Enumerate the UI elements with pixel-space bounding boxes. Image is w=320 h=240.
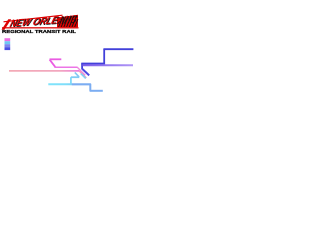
blue line middle vertical xyxy=(103,49,105,65)
legend swatch cyan xyxy=(5,41,11,44)
title logo red roofline xyxy=(4,15,63,22)
blue line lower horizontal xyxy=(81,63,105,65)
title logo red right wedge xyxy=(57,15,78,27)
magenta line top horizontal xyxy=(50,58,62,60)
pink line diagonal end xyxy=(79,71,86,78)
svg-text:REGIONAL TRANSIT RAIL: REGIONAL TRANSIT RAIL xyxy=(2,29,76,34)
magenta line lower horizontal xyxy=(54,66,77,68)
cyan line branch vertical xyxy=(70,77,72,84)
cyan line main horizontal xyxy=(48,83,72,85)
violet line horizontal xyxy=(83,64,134,66)
blue line top horizontal xyxy=(103,48,133,50)
blue line left vertical xyxy=(81,63,83,69)
cornflower line bottom horizontal xyxy=(90,90,103,92)
legend swatch magenta xyxy=(5,38,11,41)
legend swatch blue xyxy=(5,47,11,50)
cornflower line horizontal xyxy=(72,83,91,85)
title logo red slash xyxy=(2,19,12,29)
legend swatch periwinkle xyxy=(5,44,11,47)
cornflower line vertical xyxy=(89,84,91,91)
cyan bundle diagonal xyxy=(81,74,86,79)
blue line diagonal end xyxy=(82,69,89,76)
pink line horizontal xyxy=(9,70,79,72)
cyan line branch diagonal xyxy=(75,72,79,77)
magenta line diagonal end xyxy=(77,67,85,75)
magenta line zig diagonal xyxy=(50,60,56,67)
title red underline xyxy=(2,27,79,28)
title wedge black stripes xyxy=(59,15,79,27)
cyan line branch horizontal xyxy=(71,76,79,78)
